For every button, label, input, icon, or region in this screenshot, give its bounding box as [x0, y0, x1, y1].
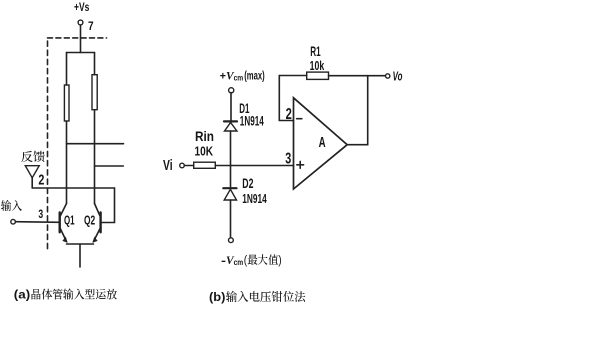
- terminal +Vs pin 7: [78, 20, 83, 25]
- svg-text:Rin: Rin: [195, 129, 214, 144]
- svg-text:1N914: 1N914: [242, 191, 267, 206]
- transistor Q2 collector: [95, 204, 100, 216]
- transistor Q1 collector: [61, 204, 67, 216]
- resistor Rin: [194, 162, 216, 168]
- op-amp A body: [294, 98, 348, 189]
- svg-text:R1: R1: [310, 44, 321, 59]
- svg-text:10K: 10K: [195, 143, 214, 158]
- noninverting plus: [297, 161, 304, 168]
- svg-text:Q2: Q2: [84, 213, 95, 227]
- wire input node 3 to Q1 base: [15, 221, 59, 224]
- svg-text:(a)晶体管输入型运放: (a)晶体管输入型运放: [14, 287, 118, 303]
- svg-text:1N914: 1N914: [240, 113, 264, 128]
- wire Rin to op-amp pin 3: [215, 165, 293, 167]
- input terminal circle: [11, 219, 16, 224]
- svg-text:A: A: [319, 134, 326, 151]
- transistor Q2 emitter: [94, 229, 100, 242]
- svg-text:3: 3: [38, 207, 43, 221]
- wire output to riser: [347, 76, 368, 145]
- terminal -Vcm: [229, 238, 234, 243]
- wire stub collector 2: [95, 165, 124, 167]
- svg-text:7: 7: [88, 19, 94, 33]
- svg-text:-Vcm(最大值): -Vcm(最大值): [221, 252, 282, 268]
- resistor left load: [64, 85, 69, 121]
- wire stub collector 1: [67, 143, 124, 145]
- svg-text:反馈: 反馈: [21, 148, 46, 165]
- wire emitter rail: [67, 243, 94, 245]
- svg-text:Q1: Q1: [64, 213, 75, 227]
- diode D1 cathode bar: [224, 120, 237, 122]
- wire left branch: [66, 53, 68, 204]
- wire D2 to -Vcm: [230, 200, 232, 238]
- svg-text:输入: 输入: [1, 198, 23, 214]
- dashed boundary left: [47, 41, 49, 250]
- terminal +Vcm: [229, 88, 234, 93]
- resistor right load: [92, 75, 97, 110]
- wire right branch: [94, 53, 96, 204]
- transistor Q2 emitter arrow: [93, 238, 97, 242]
- feedback terminal triangle: [25, 166, 39, 178]
- inverting minus: [297, 118, 302, 120]
- diode D1 body: [225, 123, 237, 132]
- wire top feedback line: [279, 75, 385, 77]
- terminal Vo: [386, 74, 390, 78]
- svg-text:D2: D2: [242, 176, 253, 191]
- transistor Q2 base bar: [99, 213, 101, 233]
- svg-text:+Vcm(max): +Vcm(max): [220, 70, 265, 83]
- svg-text:3: 3: [285, 151, 291, 168]
- svg-text:Vo: Vo: [393, 69, 403, 83]
- wire D1 to line: [230, 131, 232, 166]
- wire line to D2: [230, 166, 232, 188]
- transistor Q1 base bar: [59, 213, 61, 233]
- svg-text:+Vs: +Vs: [74, 0, 89, 14]
- wire tail current source: [79, 244, 81, 267]
- transistor Q1 emitter arrow: [63, 238, 67, 242]
- wire +Vs down: [80, 25, 82, 53]
- resistor R1: [307, 72, 329, 79]
- wire +Vcm to D1: [230, 93, 232, 121]
- diode D2 cathode bar: [223, 187, 236, 189]
- svg-text:Vi: Vi: [163, 157, 173, 174]
- input terminal Vi: [180, 163, 185, 168]
- wire Vi to Rin: [184, 165, 193, 167]
- svg-text:2: 2: [38, 173, 44, 189]
- wire top bar: [67, 52, 95, 54]
- transistor Q1 emitter: [61, 229, 67, 242]
- dashed boundary top: [48, 37, 107, 39]
- svg-text:(b)输入电压钳位法: (b)输入电压钳位法: [209, 288, 306, 305]
- svg-text:10k: 10k: [310, 58, 325, 73]
- diode D2 body: [224, 189, 236, 200]
- wire pin2 feedback: [279, 76, 293, 121]
- wire feedback node 2 to Q2 base: [32, 178, 114, 223]
